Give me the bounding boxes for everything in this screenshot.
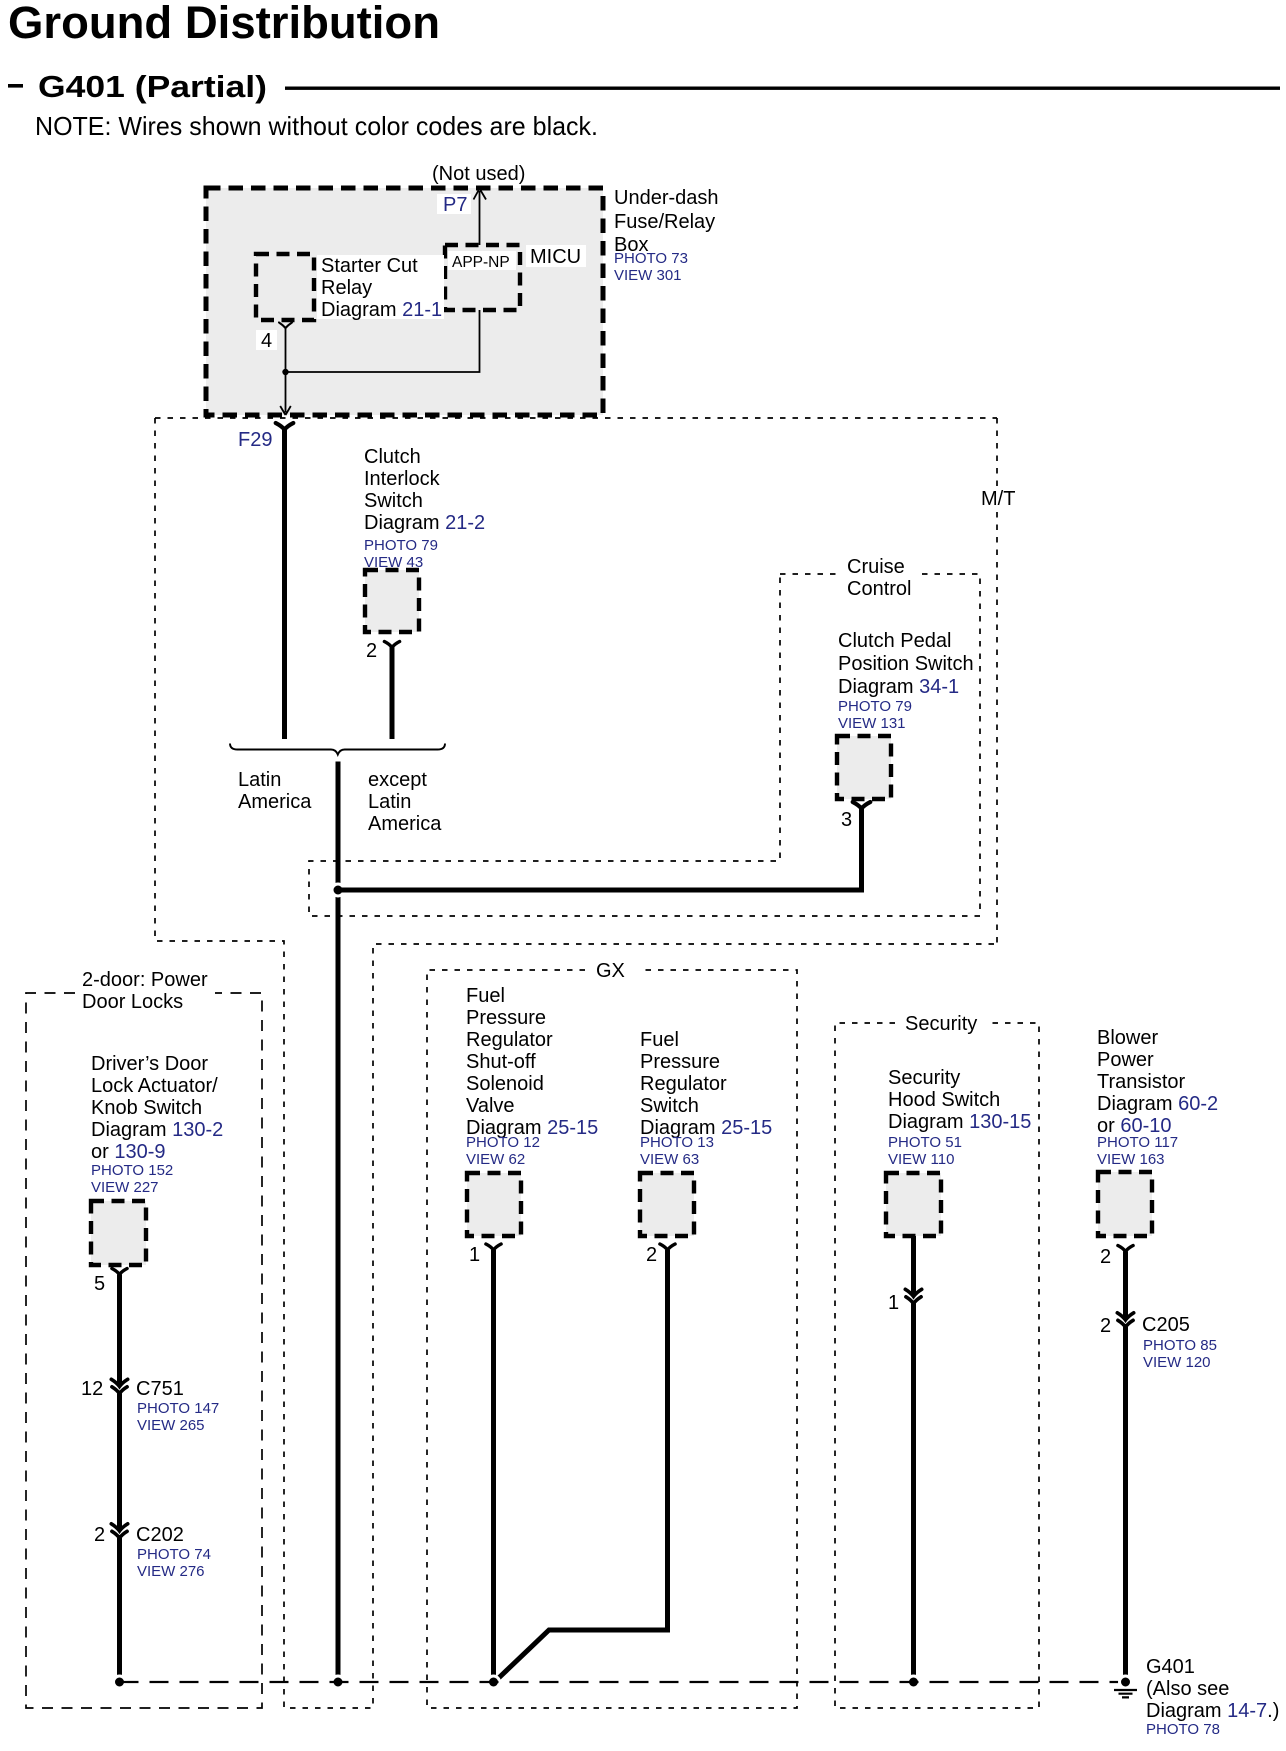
svg-text:Regulator: Regulator [466, 1029, 553, 1051]
pin 3 fork of clutch pedal position switch [853, 802, 871, 809]
svg-text:Switch: Switch [640, 1095, 699, 1117]
svg-text:VIEW 276: VIEW 276 [137, 1563, 205, 1580]
svg-text:4: 4 [261, 330, 272, 352]
connector APP-NP (MICU) [445, 245, 520, 310]
brace joining latin america variants [230, 744, 445, 755]
svg-text:PHOTO 79: PHOTO 79 [364, 537, 438, 554]
svg-text:Fuse/Relay: Fuse/Relay [614, 211, 715, 233]
svg-text:Under-dash: Under-dash [614, 187, 719, 209]
svg-text:Relay: Relay [321, 277, 372, 299]
node junction GX wires [488, 1676, 500, 1688]
svg-text:Security: Security [905, 1013, 977, 1035]
switch: clutch pedal position switch [837, 736, 891, 799]
svg-text:M/T: M/T [981, 488, 1015, 510]
2-door power door locks dashed region [26, 993, 262, 1708]
svg-text:Clutch: Clutch [364, 446, 421, 468]
svg-text:VIEW 131: VIEW 131 [838, 715, 906, 732]
node junction 2-door wire [114, 1676, 126, 1688]
svg-text:C751: C751 [136, 1378, 184, 1400]
heading rule [285, 87, 1280, 90]
switch: clutch interlock switch [365, 570, 419, 632]
wire blower power transistor to ground [1123, 1252, 1128, 1683]
svg-text:PHOTO 85: PHOTO 85 [1143, 1337, 1217, 1354]
svg-text:Pressure: Pressure [640, 1051, 720, 1073]
svg-text:America: America [368, 813, 442, 835]
svg-text:2: 2 [1100, 1246, 1111, 1268]
svg-text:Switch: Switch [364, 490, 423, 512]
svg-text:PHOTO 12: PHOTO 12 [466, 1134, 540, 1151]
svg-text:PHOTO 73: PHOTO 73 [614, 250, 688, 267]
GX dashed region [427, 970, 797, 1708]
svg-text:G401 (Partial): G401 (Partial) [38, 69, 267, 104]
svg-text:Regulator: Regulator [640, 1073, 727, 1095]
pin 5 fork [112, 1269, 127, 1275]
svg-text:2: 2 [646, 1244, 657, 1266]
svg-text:except: except [368, 769, 427, 791]
node junction to cruise control [332, 884, 344, 896]
svg-text:3: 3 [841, 809, 852, 831]
under-dash fuse/relay box [206, 188, 603, 415]
svg-text:(Not used): (Not used) [432, 163, 525, 185]
svg-text:VIEW 110: VIEW 110 [888, 1151, 954, 1168]
wire clutch interlock to brace [390, 647, 395, 740]
svg-text:C205: C205 [1142, 1314, 1190, 1336]
svg-text:VIEW 265: VIEW 265 [137, 1417, 205, 1434]
svg-text:Shut-off: Shut-off [466, 1051, 536, 1073]
ground bus dashed wire G401 [120, 1681, 1126, 1683]
connector C202 chevrons [111, 1524, 127, 1538]
svg-text:VIEW 62: VIEW 62 [466, 1151, 525, 1168]
svg-text:2: 2 [94, 1524, 105, 1546]
svg-text:F29: F29 [238, 429, 272, 451]
svg-text:1: 1 [888, 1292, 899, 1314]
svg-text:PHOTO 147: PHOTO 147 [137, 1400, 219, 1417]
svg-text:Hood Switch: Hood Switch [888, 1089, 1000, 1111]
wire P7 to (Not used) with up arrow [474, 189, 487, 246]
svg-text:VIEW 301: VIEW 301 [614, 267, 682, 284]
pin 1 fork [486, 1244, 501, 1250]
svg-text:Diagram 21-1: Diagram 21-1 [321, 299, 442, 321]
svg-text:PHOTO 74: PHOTO 74 [137, 1546, 211, 1563]
svg-text:APP-NP: APP-NP [452, 254, 510, 271]
svg-text:Pressure: Pressure [466, 1007, 546, 1029]
svg-text:P7: P7 [443, 194, 467, 216]
connector F29 fork [276, 423, 294, 430]
svg-text:PHOTO 117: PHOTO 117 [1097, 1134, 1178, 1151]
svg-text:Diagram 60-2: Diagram 60-2 [1097, 1093, 1218, 1115]
wire F29 down to brace [282, 428, 287, 739]
valve: fuel pressure regulator shut-off solenoid valve [467, 1173, 521, 1236]
svg-text:Clutch Pedal: Clutch Pedal [838, 630, 951, 652]
svg-text:Latin: Latin [238, 769, 281, 791]
svg-text:Diagram 130-2: Diagram 130-2 [91, 1119, 223, 1141]
wire fuel pressure regulator switch to junction [496, 1250, 668, 1681]
connector C205 chevrons [1117, 1313, 1133, 1327]
pin label 4 [256, 330, 277, 350]
svg-text:Diagram 130-15: Diagram 130-15 [888, 1111, 1031, 1133]
relay: starter cut relay [256, 254, 314, 320]
M/T region dashed box with corridor [155, 417, 997, 419]
wire junction down to F29 with arrow [280, 372, 291, 415]
svg-text:G401: G401 [1146, 1656, 1195, 1678]
svg-text:Knob Switch: Knob Switch [91, 1097, 202, 1119]
svg-text:5: 5 [94, 1273, 105, 1295]
svg-text:2: 2 [366, 640, 377, 662]
svg-text:Diagram 14-7.): Diagram 14-7.) [1146, 1700, 1279, 1722]
svg-text:GX: GX [596, 960, 625, 982]
ground G401 symbol [1120, 1676, 1132, 1688]
svg-text:2: 2 [1100, 1315, 1111, 1337]
svg-text:2-door: Power: 2-door: Power [82, 969, 208, 991]
wire door lock actuator to ground bus [117, 1275, 122, 1683]
wire junction to APP-NP [286, 310, 480, 372]
node junction security wire [908, 1676, 920, 1688]
svg-text:Cruise: Cruise [847, 556, 905, 578]
pin 2 fork [1118, 1246, 1133, 1252]
svg-text:Lock Actuator/: Lock Actuator/ [91, 1075, 218, 1097]
wire junction to clutch pedal position switch [338, 808, 862, 890]
svg-text:C202: C202 [136, 1524, 184, 1546]
svg-text:VIEW 227: VIEW 227 [91, 1179, 159, 1196]
svg-text:America: America [238, 791, 312, 813]
svg-text:Solenoid: Solenoid [466, 1073, 544, 1095]
svg-text:Starter Cut: Starter Cut [321, 255, 418, 277]
svg-text:Valve: Valve [466, 1095, 515, 1117]
svg-text:Blower: Blower [1097, 1027, 1158, 1049]
svg-text:PHOTO 13: PHOTO 13 [640, 1134, 714, 1151]
svg-text:MICU: MICU [530, 246, 581, 268]
svg-text:Latin: Latin [368, 791, 411, 813]
svg-text:Control: Control [847, 578, 911, 600]
svg-text:PHOTO 51: PHOTO 51 [888, 1134, 962, 1151]
transistor: blower power transistor [1098, 1172, 1152, 1236]
svg-text:PHOTO 78: PHOTO 78 [1146, 1721, 1220, 1738]
wire from relay pin 4 [285, 328, 287, 373]
wire solenoid valve to ground bus [491, 1250, 496, 1682]
node junction in fuse box [282, 369, 288, 375]
label MICU [526, 245, 586, 267]
svg-text:Transistor: Transistor [1097, 1071, 1186, 1093]
wire security hood switch to ground bus [911, 1236, 916, 1682]
svg-text:or 130-9: or 130-9 [91, 1141, 166, 1163]
pin 2 fork of clutch interlock switch [384, 642, 399, 648]
svg-text:Power: Power [1097, 1049, 1154, 1071]
svg-text:Security: Security [888, 1067, 960, 1089]
pin 4 fork of starter cut relay [279, 323, 292, 329]
svg-text:Ground Distribution: Ground Distribution [8, 0, 440, 48]
svg-text:Interlock: Interlock [364, 468, 441, 490]
svg-text:(Also see: (Also see [1146, 1678, 1229, 1700]
node junction main wire at bus [332, 1676, 344, 1688]
svg-text:Door Locks: Door Locks [82, 991, 183, 1013]
svg-text:Position Switch: Position Switch [838, 653, 974, 675]
svg-text:Diagram 21-2: Diagram 21-2 [364, 512, 485, 534]
switch: security hood switch [886, 1173, 941, 1236]
svg-text:VIEW 63: VIEW 63 [640, 1151, 699, 1168]
svg-text:1: 1 [469, 1244, 480, 1266]
svg-text:Driver’s Door: Driver’s Door [91, 1053, 208, 1075]
security dashed region [835, 1023, 1039, 1708]
svg-text:Diagram 34-1: Diagram 34-1 [838, 676, 959, 698]
pin label P7 [437, 194, 471, 214]
svg-text:Fuel: Fuel [466, 985, 505, 1007]
main ground wire [336, 762, 341, 1683]
svg-text:Fuel: Fuel [640, 1029, 679, 1051]
svg-text:PHOTO 152: PHOTO 152 [91, 1162, 173, 1179]
svg-text:PHOTO 79: PHOTO 79 [838, 698, 912, 715]
svg-text:12: 12 [81, 1378, 103, 1400]
switch: fuel pressure regulator switch [640, 1173, 694, 1236]
svg-text:VIEW 163: VIEW 163 [1097, 1151, 1165, 1168]
connector 1 chevrons on security wire [905, 1289, 921, 1303]
section heading G401 (Partial) [8, 84, 23, 88]
actuator: driver's door lock actuator/knob switch [91, 1201, 146, 1265]
pin 2 fork [660, 1244, 675, 1250]
svg-text:VIEW 120: VIEW 120 [1143, 1354, 1211, 1371]
connector C751 chevrons [111, 1379, 127, 1393]
svg-text:NOTE: Wires shown without colo: NOTE: Wires shown without color codes ar… [35, 111, 598, 141]
cruise control dashed region [309, 574, 980, 916]
